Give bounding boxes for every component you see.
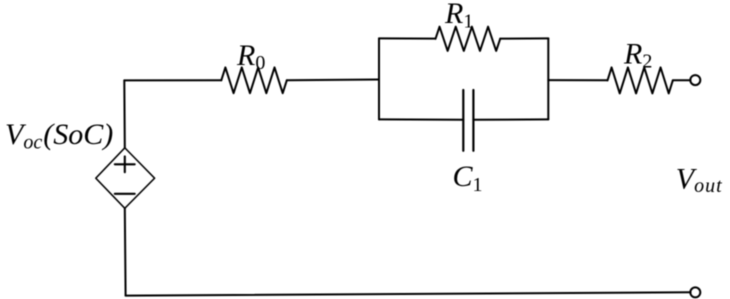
capacitor C1	[463, 90, 473, 151]
minus sign inside source	[115, 193, 135, 195]
node: parallel block left junction / left edge wire	[378, 38, 380, 119]
dependent source U1 Voc(SoC) diamond	[96, 148, 155, 209]
wire: bottom rail to output terminal	[126, 292, 691, 295]
wire: left vertical, top rail corner down to source plus terminal	[123, 80, 126, 147]
wire: top rail from left corner to R0	[124, 79, 221, 81]
terminal: bottom open circle	[690, 287, 700, 297]
wire: bottom branch right lead from C1	[473, 118, 548, 120]
plus sign inside source	[115, 156, 135, 172]
svg-text:R0: R0	[236, 39, 265, 74]
wire: left vertical, source minus terminal down to bottom rail	[124, 208, 127, 295]
terminal: Vout positive open circle	[690, 75, 700, 85]
svg-text:R1: R1	[444, 0, 473, 32]
resistor R0	[221, 67, 286, 93]
svg-text:R2: R2	[623, 37, 652, 72]
svg-text:C1: C1	[453, 160, 483, 196]
svg-text:Vout: Vout	[676, 162, 723, 197]
resistor R1	[436, 27, 501, 51]
wire: R0 to parallel block left node	[287, 79, 379, 82]
wire: bottom branch left lead to C1	[379, 118, 463, 120]
wire: R2 to output terminal	[673, 79, 691, 81]
wire: top branch right lead from R1	[500, 37, 548, 39]
node: parallel block right junction / right edge wire	[547, 38, 549, 119]
wire: top branch left lead to R1	[379, 37, 436, 39]
wire: parallel block to R2	[548, 79, 607, 81]
resistor R2	[608, 67, 673, 93]
svg-text:Voc(SoC): Voc(SoC)	[5, 118, 113, 154]
